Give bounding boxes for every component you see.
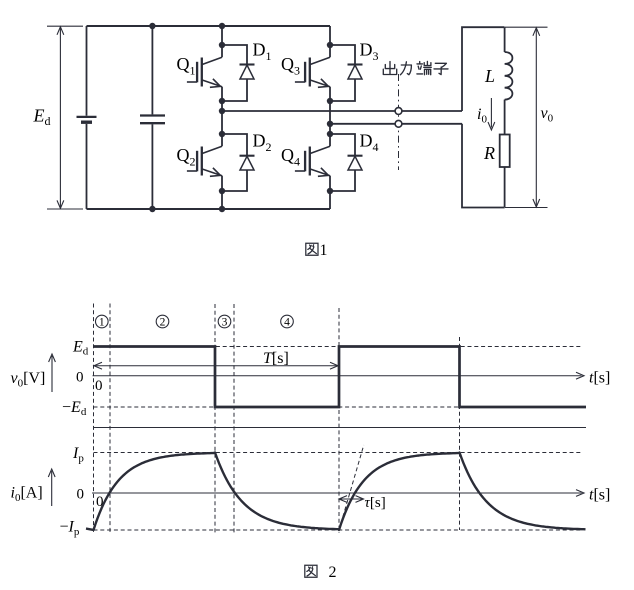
grid dashed vertical at t4 [338, 308, 340, 533]
svg-text:0: 0 [95, 378, 103, 394]
interval label (1) circled [96, 315, 109, 328]
current i0 arrow [488, 98, 495, 130]
wire left leg upper (top rail to Q1 collector node) [221, 26, 223, 45]
transistor Q2 [187, 134, 222, 191]
t axis of i0 plot [92, 490, 584, 497]
transistor Q3 [295, 45, 330, 101]
caption 図2 [305, 564, 337, 581]
junction Q1 collector node [219, 42, 225, 48]
junction left leg / top rail [219, 23, 225, 29]
v0 axis vertical arrow [49, 354, 56, 392]
svg-text:i0: i0 [477, 106, 487, 126]
wire top DC rail [87, 25, 331, 27]
svg-text:−Ed: −Ed [62, 399, 87, 418]
wire load left vertical lower [462, 124, 505, 208]
i0 exponential waveform [86, 453, 586, 531]
svg-text:Q4: Q4 [281, 145, 300, 169]
svg-text:0: 0 [76, 370, 84, 386]
junction Q3 collector node [327, 42, 333, 48]
v0 square waveform [94, 347, 587, 408]
terminal upper (open circle) [395, 108, 402, 115]
svg-text:t[s]: t[s] [589, 370, 610, 387]
wire battery top lead [86, 26, 88, 116]
svg-text:4: 4 [284, 317, 290, 329]
resistor R (box) [500, 135, 510, 168]
caption 図1 [306, 242, 328, 259]
svg-text:L: L [484, 66, 495, 86]
interval label (3) circled [218, 315, 231, 328]
grid dashed vertical at t1 [109, 304, 111, 534]
t axis of v0 plot [93, 372, 585, 379]
junction Q2 collector / D2 cathode node [219, 131, 225, 137]
svg-text:T[s]: T[s] [263, 350, 289, 367]
figure 2 : output voltage and current waveforms [11, 304, 611, 582]
v0 dimension tick bottom [505, 207, 548, 209]
junction capacitor / top rail [149, 23, 155, 29]
junction Q3 emitter / D3 anode node [327, 98, 333, 104]
interval label (2) circled [156, 315, 169, 328]
wire bottom DC rail [87, 208, 331, 210]
v0 dimension tick top [505, 26, 548, 28]
dashed line -Ed level [94, 406, 582, 408]
center line of output terminals (dash-dot) [398, 74, 400, 170]
junction left output tap node [219, 108, 225, 114]
diode D3 (free-wheeling, cathode up) [330, 45, 363, 101]
transistor Q4 [295, 134, 330, 191]
wire battery bottom lead [86, 124, 88, 209]
figure 1 : full-bridge inverter circuit [33, 23, 554, 259]
label 出力端子 (output terminals) [383, 61, 448, 74]
svg-text:Q3: Q3 [281, 54, 300, 78]
wire right leg upper (top rail to Q3 collector node) [329, 26, 331, 45]
tangent line for time constant (dashed) [339, 445, 364, 530]
junction Q2 emitter / D2 anode node [219, 188, 225, 194]
wire resistor bottom lead [504, 167, 506, 208]
svg-text:1: 1 [99, 317, 105, 329]
svg-text:D4: D4 [360, 131, 379, 155]
wire capacitor top lead [151, 26, 153, 114]
dashed line +Ed level [94, 346, 582, 348]
svg-text:τ[s]: τ[s] [365, 495, 386, 511]
svg-text:v0[V]: v0[V] [11, 370, 46, 390]
junction Q4 emitter / D4 anode node [327, 188, 333, 194]
Ed dimension arrow line [57, 27, 64, 209]
junction left leg / bottom rail [219, 206, 225, 212]
period T[s] double arrow [94, 362, 338, 369]
wire load top lead into inductor [504, 27, 506, 52]
wire left leg lower (to bottom rail) [221, 191, 223, 209]
grid dashed vertical at t3 [233, 304, 235, 533]
svg-text:i0[A]: i0[A] [11, 485, 43, 505]
wire upper output (left leg tap to load) [222, 110, 462, 112]
svg-text:R: R [483, 143, 495, 163]
inductor L (4 loops) [505, 52, 513, 100]
wire right leg lower (to bottom rail) [329, 191, 331, 209]
diode D4 (free-wheeling, cathode up) [330, 134, 363, 191]
terminal lower (open circle) [395, 120, 402, 127]
Ed dimension tick bottom [47, 208, 83, 210]
battery (DC source) plates [77, 117, 97, 122]
tau double arrow [339, 496, 364, 503]
svg-text:2: 2 [160, 317, 166, 329]
svg-text:−Ip: −Ip [60, 519, 80, 539]
svg-text:Ip: Ip [72, 445, 84, 465]
svg-text:D2: D2 [253, 131, 272, 155]
grid dashed vertical at t2 [214, 304, 216, 533]
diode D2 (free-wheeling, cathode up) [222, 134, 255, 191]
junction Q1 emitter / D1 anode node [219, 98, 225, 104]
svg-text:D1: D1 [253, 40, 272, 64]
interval label (4) circled [281, 315, 294, 328]
dashed line -Ip level [94, 529, 584, 531]
diode D1 (free-wheeling, cathode up) [222, 45, 255, 101]
svg-text:v0: v0 [541, 105, 554, 125]
wire lower output (right leg tap to load) [330, 123, 462, 125]
v0 dimension arrow line [533, 28, 540, 207]
svg-text:Q2: Q2 [177, 145, 196, 169]
svg-text:1: 1 [320, 242, 328, 259]
wire capacitor bottom lead [151, 124, 153, 209]
transistor Q1 [187, 45, 222, 101]
separator line between plots [94, 427, 587, 429]
svg-text:3: 3 [222, 317, 228, 329]
wire load left vertical upper [462, 27, 505, 111]
svg-text:D3: D3 [360, 40, 379, 64]
junction Q4 collector / D4 cathode node [327, 131, 333, 137]
svg-text:t[s]: t[s] [589, 487, 610, 504]
svg-text:Ed: Ed [33, 106, 51, 129]
svg-text:Ed: Ed [72, 339, 89, 358]
wire between inductor and resistor [504, 100, 506, 135]
dashed line +Ip level [94, 452, 582, 454]
grid dashed vertical at t5 [459, 337, 461, 530]
Ed dimension tick top [47, 25, 83, 27]
junction right output tap node [327, 121, 333, 127]
svg-text:0: 0 [77, 487, 85, 503]
svg-text:Q1: Q1 [177, 54, 196, 78]
wire left leg middle (Q1 emitter node to Q2 collector node) [221, 101, 223, 134]
junction capacitor / bottom rail [149, 206, 155, 212]
capacitor C (DC link) [140, 116, 165, 124]
i0 axis vertical arrow [48, 469, 55, 506]
svg-text:2: 2 [329, 564, 337, 581]
grid dashed vertical at t0 [93, 304, 95, 534]
wire right leg middle (Q3 emitter node to Q4 collector node) [329, 101, 331, 134]
